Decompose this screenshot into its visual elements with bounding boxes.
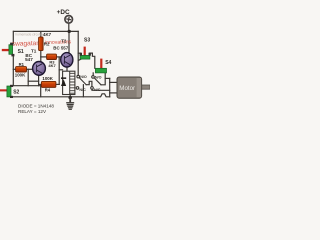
svg-text:N/O: N/O [80, 75, 87, 79]
svg-text:N/O: N/O [95, 75, 102, 79]
svg-text:100K: 100K [15, 73, 26, 78]
svg-text:S3: S3 [84, 38, 90, 44]
svg-text:S1: S1 [18, 49, 24, 55]
svg-text:S2: S2 [13, 90, 19, 96]
svg-text:BC 557: BC 557 [53, 45, 68, 50]
svg-text:homemade circuitry: homemade circuitry [15, 33, 43, 37]
svg-text:R4: R4 [45, 88, 51, 93]
svg-text:S4: S4 [105, 60, 111, 66]
svg-text:Motor: Motor [119, 85, 135, 92]
svg-text:N/C: N/C [94, 88, 101, 92]
svg-text:DIODE = 1N4148: DIODE = 1N4148 [18, 103, 54, 108]
svg-text:R2: R2 [44, 41, 50, 46]
svg-text:547: 547 [25, 57, 33, 62]
svg-text:RELAY = 12V: RELAY = 12V [18, 109, 47, 114]
svg-text:+DC: +DC [57, 9, 70, 16]
svg-text:R1: R1 [19, 62, 25, 67]
svg-text:N/C: N/C [79, 88, 86, 92]
svg-text:4K7: 4K7 [48, 63, 56, 68]
svg-text:T2: T2 [61, 38, 67, 43]
svg-text:100K: 100K [42, 76, 53, 81]
svg-text:4K7: 4K7 [43, 32, 52, 37]
